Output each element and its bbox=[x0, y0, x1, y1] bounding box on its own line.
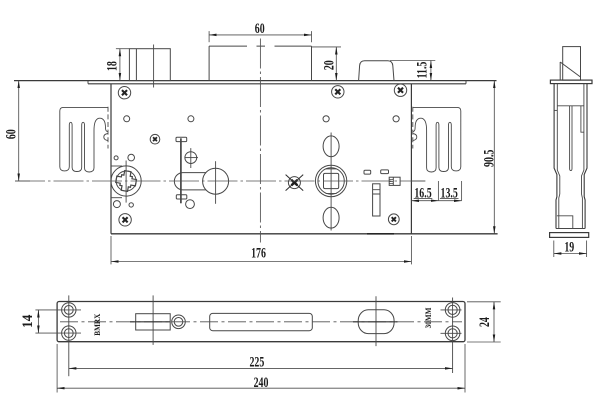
right screw crosshair top bbox=[441, 309, 462, 311]
dim 176 extensions bbox=[110, 236, 112, 264]
dim 19 bbox=[554, 241, 587, 258]
main horizontal centerline bbox=[15, 180, 425, 182]
slider band bbox=[373, 190, 380, 194]
dark latch-bolt edge seen through latch hole bbox=[130, 321, 170, 323]
dim 60 top line bbox=[209, 34, 311, 36]
deadbolt front (rounded) bbox=[359, 61, 394, 81]
crosshair v bbox=[190, 148, 192, 168]
small circle below rect bbox=[186, 200, 195, 209]
faceplate top line bbox=[14, 80, 497, 82]
follower vertical line bbox=[330, 133, 332, 231]
dim 225 line bbox=[69, 367, 453, 369]
svg-text:90.5: 90.5 bbox=[480, 150, 497, 167]
case inner right bbox=[582, 84, 584, 229]
svg-text:19: 19 bbox=[564, 238, 574, 255]
screw top-middle bbox=[332, 86, 344, 98]
dim 16.5 line bbox=[411, 200, 438, 202]
right spring (serpentine, mirror) bbox=[413, 107, 461, 172]
dim 176 line bbox=[111, 261, 411, 263]
faceplate outline bbox=[57, 302, 465, 342]
bottom small rect bbox=[176, 195, 187, 199]
svg-text:225: 225 bbox=[249, 353, 264, 370]
lock body left edge bbox=[110, 84, 112, 234]
inner step left bbox=[554, 109, 557, 111]
inner line right bbox=[581, 106, 584, 132]
dim 24 line bbox=[493, 302, 495, 342]
screw hole bottom-left outer bbox=[62, 326, 76, 340]
screw hole top-right outer bbox=[445, 303, 460, 318]
svg-text:24: 24 bbox=[476, 317, 493, 327]
dim 20 extension bbox=[312, 46, 342, 48]
lock body bottom edge (extends right as extension line) bbox=[111, 233, 498, 235]
dim 240 extensions bbox=[56, 344, 58, 393]
chord bottom bbox=[326, 193, 337, 195]
square follower inner circle bbox=[318, 168, 344, 194]
small hole row bbox=[124, 116, 130, 122]
svg-text:176: 176 bbox=[251, 245, 266, 262]
screw hole top-right inner bbox=[448, 305, 457, 314]
square spindle hole bbox=[324, 173, 339, 188]
latch centerline bbox=[153, 45, 155, 88]
latch hole bbox=[136, 314, 171, 330]
latch bolt inner line bbox=[135, 49, 137, 81]
svg-text:16.5: 16.5 bbox=[414, 184, 431, 201]
chord top bbox=[326, 168, 337, 170]
left handle follower inner circle bbox=[116, 171, 136, 191]
screw mid-left bbox=[150, 134, 160, 144]
dim 90.5 line bbox=[493, 81, 495, 234]
bottom interior step bbox=[557, 216, 573, 229]
case outer right bbox=[584, 84, 587, 229]
bottom face bar bbox=[550, 233, 589, 238]
small circle d bbox=[129, 203, 133, 207]
svg-text:14: 14 bbox=[20, 315, 37, 328]
deadbolt guide box top edge with center gap bbox=[209, 45, 311, 47]
svg-text:20: 20 bbox=[321, 60, 338, 70]
left handle follower outer circle bbox=[111, 166, 141, 196]
screw hole bottom-right inner bbox=[448, 329, 457, 338]
deadbolt guide box right side bbox=[311, 46, 313, 81]
screw top-right bbox=[394, 84, 406, 96]
dim 18 line bbox=[119, 49, 121, 81]
dim 24 extensions bbox=[467, 301, 501, 303]
set screw block bbox=[389, 177, 400, 185]
dim 60 left bottom extension bbox=[15, 180, 30, 182]
follower notch bottom line bbox=[111, 197, 122, 199]
svg-text:60: 60 bbox=[3, 129, 20, 139]
small circle c bbox=[113, 201, 120, 208]
dim 60 top extensions bbox=[208, 31, 210, 42]
svg-text:11.5: 11.5 bbox=[414, 62, 431, 79]
set screw divider bbox=[392, 177, 394, 185]
cylinder screw hole inner bbox=[174, 318, 183, 327]
small circle a bbox=[114, 156, 118, 160]
screw bottom-left bbox=[119, 214, 131, 226]
svg-text:18: 18 bbox=[103, 61, 120, 71]
small crosshair circle bbox=[185, 152, 197, 164]
right screws vertical centerline bbox=[452, 298, 454, 374]
darker segment on bottom edge bbox=[367, 233, 394, 235]
dim 16.5/13.5 extensions bbox=[437, 181, 439, 201]
screw hole top-left inner bbox=[64, 306, 73, 315]
top face bar bbox=[550, 80, 592, 84]
cylinder keyhole lobe bbox=[174, 173, 206, 190]
deadbolt guide box (60 wide) left side bbox=[208, 46, 210, 81]
dim 13.5 line bbox=[438, 200, 461, 202]
long slot bbox=[210, 313, 313, 330]
screw bottom-right bbox=[388, 214, 399, 225]
bottom view horizontal centerline bbox=[60, 321, 462, 323]
dark bolt edge seen through oval hole bbox=[353, 321, 398, 323]
dim 14 extensions / screw crosshairs bbox=[35, 309, 81, 311]
case bottom edge bbox=[556, 228, 585, 230]
faceplate bottom line bbox=[88, 83, 466, 85]
screw hole top-left outer bbox=[62, 303, 76, 317]
crosshair h bbox=[185, 157, 199, 159]
follower notch top line bbox=[111, 165, 122, 167]
inner slot bbox=[570, 106, 572, 171]
faceplate right end cap bbox=[465, 81, 467, 84]
dim 60 left line bbox=[18, 81, 20, 181]
text underline 16.5 bbox=[414, 197, 433, 199]
inner top horizontal bbox=[557, 105, 584, 107]
square follower outer circle bbox=[315, 165, 346, 196]
latch bevel edge bbox=[559, 62, 561, 80]
latch bolt side bbox=[563, 47, 581, 81]
set screw hatch bbox=[389, 180, 393, 184]
ellipse below bbox=[323, 207, 339, 228]
screw top-left bbox=[118, 87, 130, 99]
lock body right edge bbox=[410, 84, 412, 234]
follower cross hole bbox=[115, 169, 138, 192]
vertical bar near keyhole bbox=[180, 138, 182, 203]
deadbolt oval bbox=[358, 310, 394, 334]
dim 11.5 line bbox=[430, 61, 432, 81]
screw hole bottom-left inner bbox=[64, 329, 73, 338]
ellipse above bbox=[323, 136, 339, 157]
right spring pocket hidden edge (dashed) bbox=[412, 107, 414, 149]
latch bolt front bbox=[129, 49, 170, 81]
svg-text:13.5: 13.5 bbox=[441, 184, 458, 201]
text underline 13.5 bbox=[440, 197, 459, 199]
latch bevel diagonal bbox=[560, 62, 580, 77]
vertical slider bar bbox=[373, 184, 380, 216]
keyhole vertical crosshair bbox=[215, 161, 217, 204]
top small rect bbox=[176, 137, 187, 141]
svg-text:240: 240 bbox=[254, 374, 269, 391]
dim 11.5 extension bbox=[390, 60, 435, 62]
cylinder screw hole outer bbox=[172, 315, 186, 329]
oval centerline bbox=[375, 296, 377, 346]
svg-text:BMRX: BMRX bbox=[93, 313, 102, 335]
small rect f bbox=[381, 170, 389, 174]
dim texts main view bbox=[3, 20, 497, 261]
dim 14 line bbox=[37, 310, 39, 333]
vertical centerline through 60 box bbox=[259, 39, 261, 243]
dim 240 line bbox=[57, 387, 465, 389]
follower vertical crosshair bbox=[125, 161, 127, 203]
cylinder keyhole big circle bbox=[203, 168, 229, 194]
svg-text:30MM: 30MM bbox=[424, 308, 433, 329]
left spring (serpentine) bbox=[60, 107, 108, 172]
left spring pocket hidden edge (dashed) bbox=[107, 107, 109, 149]
dim 18 extension bbox=[116, 48, 129, 50]
case inner left bbox=[557, 84, 560, 229]
small rect e bbox=[364, 170, 371, 174]
svg-text:60: 60 bbox=[255, 20, 265, 37]
latch hole centerline bbox=[152, 295, 154, 345]
right screw crosshair bottom bbox=[441, 332, 462, 334]
X-marked circle bbox=[286, 175, 304, 191]
small circle b bbox=[128, 154, 135, 161]
dim 20 line bbox=[335, 47, 337, 81]
faceplate left end cap bbox=[87, 81, 89, 84]
left screws vertical centerline bbox=[68, 295, 70, 376]
screw hole bottom-right outer bbox=[445, 326, 460, 341]
case outer left bbox=[554, 84, 557, 229]
